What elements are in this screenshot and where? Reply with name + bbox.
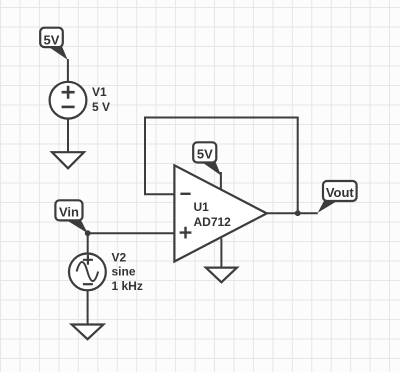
net flag Vout bbox=[318, 181, 357, 213]
op-amp noninverting input marker bbox=[180, 227, 192, 239]
svg-text:1 kHz: 1 kHz bbox=[112, 279, 143, 293]
svg-text:5V: 5V bbox=[44, 32, 60, 47]
wire V2 bottom to ground bbox=[87, 290, 89, 325]
svg-text:5 V: 5 V bbox=[92, 100, 110, 114]
wire 5V flag tail to V1 top bbox=[67, 59, 69, 82]
feedback wire (inverting input loop to output) bbox=[145, 118, 298, 214]
wire Vin node to V2 top bbox=[87, 233, 89, 254]
ground (V1) bbox=[52, 152, 84, 168]
wire noninverting input bbox=[88, 232, 175, 234]
label V1 / 5 V bbox=[92, 85, 110, 114]
net flag 5V (V1 supply node) bbox=[40, 28, 67, 60]
svg-text:AD712: AD712 bbox=[194, 215, 232, 229]
svg-text:5V: 5V bbox=[197, 147, 213, 162]
svg-text:Vout: Vout bbox=[326, 185, 355, 200]
junction node output bbox=[295, 210, 301, 216]
wire V1 bottom to ground bbox=[67, 119, 69, 152]
svg-text:V2: V2 bbox=[112, 251, 127, 265]
label V2 / sine / 1 kHz bbox=[112, 251, 143, 293]
net flag 5V (op-amp supply) bbox=[193, 142, 221, 175]
svg-text:V1: V1 bbox=[92, 85, 107, 99]
voltage source V2 (sine) bbox=[69, 254, 106, 291]
svg-text:sine: sine bbox=[112, 265, 136, 279]
label U1 / AD712 bbox=[194, 200, 232, 229]
wire op-amp V+ supply bbox=[220, 172, 222, 190]
junction node Vin bbox=[85, 230, 91, 236]
ground (V2) bbox=[72, 325, 104, 340]
svg-text:U1: U1 bbox=[194, 200, 210, 214]
net flag Vin bbox=[55, 200, 87, 233]
voltage source V1 bbox=[50, 82, 87, 119]
wire output bbox=[267, 212, 318, 214]
op-amp U1 body bbox=[174, 165, 266, 261]
ground (op-amp) bbox=[206, 268, 237, 283]
wire op-amp V- supply to ground bbox=[220, 238, 222, 267]
svg-text:Vin: Vin bbox=[59, 205, 79, 220]
op-amp inverting input marker bbox=[180, 193, 190, 195]
